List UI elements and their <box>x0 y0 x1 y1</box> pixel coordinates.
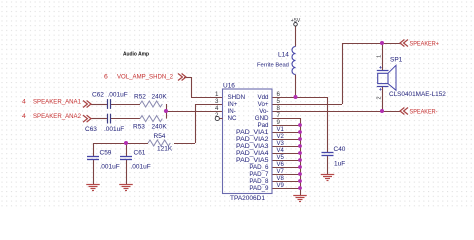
svg-text:7: 7 <box>277 112 281 119</box>
svg-text:2: 2 <box>376 96 382 99</box>
svg-text:C40: C40 <box>334 146 346 153</box>
svg-text:121K: 121K <box>157 146 173 153</box>
svg-text:SPEAKER+: SPEAKER+ <box>410 40 440 47</box>
svg-text:PAD_7: PAD_7 <box>249 171 269 178</box>
svg-text:PAD_9: PAD_9 <box>249 185 269 192</box>
svg-text:V4: V4 <box>277 148 285 154</box>
svg-text:1: 1 <box>215 91 219 98</box>
svg-text:PAD_VIA1: PAD_VIA1 <box>236 129 269 136</box>
svg-text:V6: V6 <box>277 162 285 168</box>
svg-text:SP1: SP1 <box>390 57 403 64</box>
svg-text:.001uF: .001uF <box>108 92 128 99</box>
svg-text:240K: 240K <box>152 94 168 101</box>
svg-text:PAD_VIA2: PAD_VIA2 <box>236 136 269 143</box>
svg-text:Vdd: Vdd <box>257 94 269 101</box>
svg-text:PAD_VIA4: PAD_VIA4 <box>236 150 269 157</box>
svg-text:Vo-: Vo- <box>259 108 268 115</box>
svg-text:R53: R53 <box>133 124 145 131</box>
svg-text:Vo+: Vo+ <box>258 101 269 108</box>
svg-text:R54: R54 <box>154 133 166 140</box>
svg-text:SPEAKER-: SPEAKER- <box>410 108 438 115</box>
svg-text:Ferrite Bead: Ferrite Bead <box>257 62 289 68</box>
svg-text:R52: R52 <box>134 94 146 101</box>
svg-text:GND: GND <box>255 115 269 122</box>
svg-text:1: 1 <box>376 55 382 58</box>
svg-text:.001uF: .001uF <box>131 164 151 171</box>
svg-text:Pad: Pad <box>257 122 269 129</box>
svg-text:V2: V2 <box>277 134 285 140</box>
svg-text:Audio Amp: Audio Amp <box>123 52 149 58</box>
svg-text:4: 4 <box>22 113 26 120</box>
svg-text:L14: L14 <box>278 52 289 59</box>
svg-text:C61: C61 <box>134 149 146 156</box>
svg-text:C62: C62 <box>92 92 104 99</box>
svg-text:6: 6 <box>104 73 108 80</box>
svg-text:3: 3 <box>215 98 219 105</box>
svg-text:.001uF: .001uF <box>100 164 120 171</box>
svg-text:PAD_VIA5: PAD_VIA5 <box>236 157 269 164</box>
svg-text:SHDN: SHDN <box>228 94 246 101</box>
svg-text:C59: C59 <box>100 149 112 156</box>
svg-text:SPEAKER_ANA1: SPEAKER_ANA1 <box>33 99 81 106</box>
svg-text:C63: C63 <box>85 126 97 133</box>
svg-text:PAD_6: PAD_6 <box>249 164 269 171</box>
svg-text:6: 6 <box>277 91 281 98</box>
svg-text:.001uF: .001uF <box>104 126 124 133</box>
svg-text:V5: V5 <box>277 155 285 161</box>
svg-text:PAD_8: PAD_8 <box>249 178 269 185</box>
svg-text:V9: V9 <box>277 183 285 189</box>
svg-text:IN+: IN+ <box>228 101 238 108</box>
svg-text:U16: U16 <box>223 83 235 90</box>
svg-text:4: 4 <box>215 105 219 112</box>
svg-text:2: 2 <box>215 112 219 119</box>
svg-text:9: 9 <box>277 119 281 126</box>
svg-text:PAD_VIA3: PAD_VIA3 <box>236 143 269 150</box>
svg-text:TPA2006D1: TPA2006D1 <box>230 195 265 202</box>
svg-text:+5V: +5V <box>291 18 301 24</box>
svg-text:NC: NC <box>228 115 237 122</box>
svg-text:1uF: 1uF <box>334 160 345 167</box>
svg-text:VOL_AMP_SHDN_2: VOL_AMP_SHDN_2 <box>117 73 173 80</box>
svg-text:V3: V3 <box>277 141 285 147</box>
svg-text:V8: V8 <box>277 176 285 182</box>
svg-text:240K: 240K <box>152 124 168 131</box>
svg-text:V7: V7 <box>277 169 285 175</box>
svg-text:IN-: IN- <box>228 108 236 115</box>
svg-text:V1: V1 <box>277 127 285 133</box>
svg-text:5: 5 <box>277 98 281 105</box>
svg-text:SPEAKER_ANA2: SPEAKER_ANA2 <box>33 113 81 120</box>
svg-text:CLS0401MAE-L152: CLS0401MAE-L152 <box>389 91 446 98</box>
svg-text:4: 4 <box>22 99 26 106</box>
svg-text:8: 8 <box>277 105 281 112</box>
